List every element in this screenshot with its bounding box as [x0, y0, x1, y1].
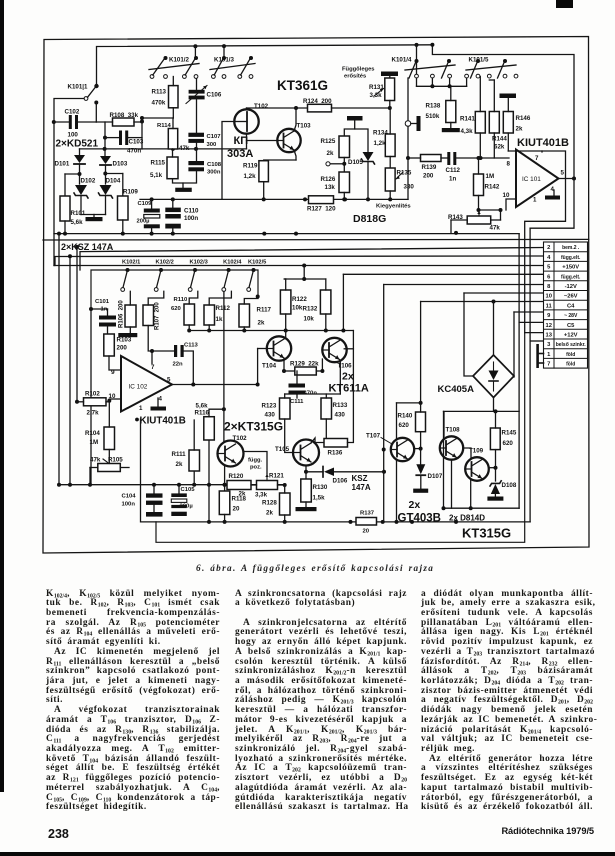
- wire D103 to R109: [105, 173, 123, 175]
- wire T105 collector: [311, 438, 324, 443]
- svg-text:R132: R132: [303, 306, 318, 313]
- wire K101/2 stem: [194, 46, 196, 58]
- wire T105 emitter: [305, 466, 307, 480]
- wire T107 top net: [396, 403, 398, 439]
- wire bridge right riser: [513, 312, 515, 377]
- svg-text:R130: R130: [313, 484, 328, 491]
- svg-text:R131: R131: [369, 84, 384, 91]
- svg-text:függ.elt.: függ.elt.: [561, 274, 581, 280]
- svg-text:10k: 10k: [304, 316, 315, 323]
- svg-text:R136: R136: [328, 450, 343, 457]
- svg-text:+12V: +12V: [564, 333, 578, 339]
- svg-text:R125: R125: [321, 138, 336, 145]
- svg-text:IC 101: IC 101: [522, 176, 541, 183]
- wire fugg.elt row wire: [55, 256, 544, 266]
- potentiometer R131: [381, 72, 398, 77]
- wire T106 emitter: [339, 361, 341, 395]
- svg-text:föld: föld: [566, 352, 575, 358]
- svg-text:R106 200: R106 200: [119, 300, 125, 328]
- svg-text:100n: 100n: [184, 215, 198, 222]
- svg-text:-12V: -12V: [565, 284, 577, 290]
- text column 1: [46, 590, 220, 814]
- svg-text:R112: R112: [216, 305, 231, 312]
- svg-text:12: 12: [545, 323, 551, 329]
- svg-text:R140: R140: [398, 413, 413, 420]
- svg-text:erősítés: erősítés: [344, 74, 366, 80]
- svg-text:C5: C5: [567, 323, 575, 329]
- wire T102 gate: [222, 122, 235, 200]
- svg-text:20: 20: [233, 506, 240, 513]
- wire bottom right rail: [444, 507, 520, 509]
- wire bem.2 row wire: [80, 248, 544, 271]
- svg-text:R122: R122: [292, 296, 307, 303]
- svg-text:D107: D107: [428, 473, 443, 480]
- wire upper frame bottom: [43, 238, 589, 241]
- svg-text:R127 120: R127 120: [307, 206, 336, 213]
- svg-text:300: 300: [207, 142, 218, 148]
- wire T106 collector: [344, 348, 353, 350]
- svg-text:2k: 2k: [327, 150, 334, 157]
- journal footer: [414, 826, 594, 836]
- svg-text:D106: D106: [333, 478, 348, 485]
- wire T103 collector: [294, 108, 296, 131]
- svg-text:R115: R115: [151, 160, 166, 167]
- svg-text:2x: 2x: [409, 499, 421, 511]
- svg-text:5: 5: [561, 170, 565, 177]
- svg-text:T105: T105: [275, 446, 290, 453]
- wire IC101 pin7 feedback: [525, 151, 566, 333]
- wire K101|1 lower contact down: [95, 103, 97, 123]
- wire R108 left down: [104, 122, 106, 138]
- svg-text:R121: R121: [269, 473, 284, 480]
- svg-text:KT315G: KT315G: [462, 526, 511, 541]
- svg-text:2,7k: 2,7k: [87, 410, 100, 417]
- svg-text:1M: 1M: [486, 173, 495, 180]
- svg-text:T107: T107: [366, 433, 381, 440]
- svg-text:5,1k: 5,1k: [150, 172, 163, 179]
- label KIUT401B lower: [135, 418, 139, 422]
- wire T109 base: [463, 448, 471, 457]
- wire T102 drain to R124: [246, 108, 248, 109]
- wire IC101 output: [559, 178, 575, 180]
- svg-text:K101|1: K101|1: [68, 84, 89, 91]
- svg-text:KT611A: KT611A: [329, 383, 369, 395]
- svg-text:belső szinkr.: belső szinkr.: [556, 342, 587, 348]
- text column 2: [235, 590, 407, 814]
- capacitor C103: [119, 131, 122, 146]
- svg-text:C103: C103: [129, 139, 144, 146]
- wire T102b collector: [223, 292, 225, 442]
- text column 3: [421, 590, 593, 814]
- svg-text:470k: 470k: [152, 100, 166, 107]
- svg-text:T103: T103: [297, 123, 312, 130]
- svg-text:7: 7: [547, 362, 550, 368]
- wire T103 emitter: [294, 150, 296, 160]
- wire bottom bus: [141, 419, 531, 522]
- svg-text:10k: 10k: [292, 305, 303, 312]
- svg-text:147A: 147A: [352, 483, 371, 492]
- wire bridge bottom rail: [444, 410, 520, 412]
- svg-text:D108: D108: [502, 482, 517, 489]
- schematic outer frame: [43, 37, 589, 554]
- wire R111 branch: [193, 471, 195, 485]
- wire C4 row wire: [421, 301, 544, 303]
- pot tap terminal: [326, 162, 330, 166]
- svg-text:R109: R109: [123, 189, 138, 196]
- svg-text:2×KT315G: 2×KT315G: [224, 420, 283, 434]
- wire R116 branch: [208, 440, 210, 485]
- svg-text:T104: T104: [262, 363, 277, 370]
- page number: [48, 827, 69, 841]
- wire ~26V riser: [464, 293, 473, 376]
- svg-text:K101/2: K101/2: [169, 57, 190, 64]
- wire K101|1 left to C102: [54, 99, 84, 266]
- svg-text:11: 11: [546, 303, 553, 309]
- svg-text:T102: T102: [254, 103, 269, 110]
- connector ground bracket: [536, 344, 539, 368]
- svg-text:R123: R123: [262, 403, 277, 410]
- svg-text:R118: R118: [232, 496, 247, 503]
- op-amp IC102 KIUT401B: [121, 356, 172, 412]
- svg-text:1,5k: 1,5k: [313, 495, 326, 502]
- svg-text:3,3k: 3,3k: [370, 92, 383, 99]
- wire output to belso szinkron: [530, 179, 574, 229]
- capacitor C112: [447, 152, 450, 165]
- svg-text:KT361G: KT361G: [277, 78, 328, 93]
- svg-text:R146: R146: [516, 115, 531, 122]
- svg-text:C113: C113: [184, 343, 198, 349]
- svg-text:C107: C107: [207, 134, 222, 140]
- ground R138: [442, 128, 460, 132]
- wire pin10 link: [506, 199, 516, 210]
- svg-text:R138: R138: [426, 103, 441, 110]
- connector table: [544, 242, 588, 368]
- svg-text:D818G: D818G: [353, 213, 386, 225]
- svg-text:4: 4: [159, 396, 163, 403]
- svg-text:7: 7: [535, 155, 539, 162]
- svg-text:Függőleges: Függőleges: [342, 67, 375, 73]
- resistor R127: [309, 196, 334, 204]
- wire T104 base from output: [257, 349, 259, 385]
- wire C5 row wire: [519, 321, 543, 323]
- bottom frame left lower: [90, 309, 92, 485]
- svg-text:K102/3: K102/3: [190, 260, 208, 266]
- svg-text:47k: 47k: [490, 225, 501, 232]
- svg-text:függ.: függ.: [248, 458, 263, 464]
- capacitor C106 variable: [189, 90, 205, 94]
- svg-text:8: 8: [507, 161, 511, 168]
- bottom frame bottom inner: [156, 333, 525, 543]
- svg-text:D104: D104: [106, 178, 121, 185]
- svg-text:620: 620: [399, 422, 410, 429]
- svg-text:K102/1: K102/1: [122, 260, 140, 266]
- svg-text:K102/5: K102/5: [248, 260, 266, 266]
- svg-text:C106: C106: [207, 92, 222, 99]
- wire T102 source: [246, 134, 248, 149]
- svg-text:C111: C111: [290, 399, 304, 405]
- svg-text:C112: C112: [446, 167, 461, 174]
- svg-text:200: 200: [423, 173, 434, 180]
- svg-text:C108: C108: [207, 162, 222, 168]
- svg-text:2x: 2x: [342, 371, 354, 383]
- svg-text:2x D814D: 2x D814D: [449, 514, 485, 523]
- wire base bias rail: [189, 330, 353, 332]
- input terminal with cap: [407, 78, 409, 121]
- svg-text:R141: R141: [460, 116, 475, 123]
- svg-text:R139: R139: [422, 164, 437, 171]
- wire C4 riser: [420, 302, 422, 403]
- svg-text:1k: 1k: [216, 316, 223, 323]
- wire IC102 pin7: [151, 351, 153, 364]
- ground R130: [296, 507, 317, 511]
- wire +150V branch: [303, 266, 305, 280]
- svg-text:100n: 100n: [122, 502, 136, 508]
- svg-text:IC 102: IC 102: [129, 384, 148, 391]
- wire +12V row wire: [525, 332, 544, 334]
- terminal bar: [347, 116, 363, 121]
- svg-text:~26V: ~26V: [564, 294, 578, 300]
- ground D108: [487, 497, 503, 501]
- svg-text:303А: 303А: [227, 148, 253, 160]
- wire T102 base to R121 wiper: [243, 452, 267, 475]
- wire T108 emitter down: [451, 460, 453, 508]
- svg-text:R111: R111: [172, 451, 187, 458]
- wire T107 right node: [414, 448, 420, 450]
- svg-text:2k: 2k: [516, 126, 523, 133]
- svg-text:KIUT401B: KIUT401B: [140, 416, 186, 427]
- wire C5 riser: [518, 234, 520, 509]
- wire ~26V row wire: [464, 292, 544, 294]
- svg-text:R145: R145: [502, 430, 517, 437]
- scan edge bars: [0, 0, 4, 792]
- wire K101/3 stem: [223, 46, 225, 58]
- ground IC102 pin4: [157, 398, 159, 407]
- svg-text:5,6k: 5,6k: [196, 403, 209, 410]
- svg-text:2k: 2k: [266, 510, 273, 517]
- svg-text:2×KD521: 2×KD521: [56, 139, 99, 150]
- svg-text:C4: C4: [567, 303, 575, 309]
- svg-text:2: 2: [547, 245, 550, 251]
- svg-text:R101: R101: [71, 210, 86, 217]
- svg-text:R110: R110: [174, 297, 188, 303]
- wire D102 D104 common: [81, 214, 106, 216]
- ground R106: [118, 333, 137, 337]
- svg-text:poz.: poz.: [250, 465, 262, 471]
- wire fugg.elt-2 row wire: [343, 273, 543, 275]
- svg-text:C101: C101: [95, 299, 110, 305]
- svg-text:~ 28V: ~ 28V: [564, 313, 578, 319]
- wire R122 R132 rail: [284, 278, 326, 280]
- wire T104 emitter: [283, 359, 285, 372]
- svg-text:R119: R119: [243, 163, 258, 170]
- wire C103 node down: [104, 138, 106, 149]
- capacitor C110: [172, 199, 174, 207]
- wire -12V drop: [383, 285, 385, 522]
- svg-text:5: 5: [167, 377, 171, 384]
- svg-text:5,6k: 5,6k: [71, 219, 84, 226]
- wire bridge top: [493, 302, 495, 356]
- svg-text:C110: C110: [184, 208, 199, 215]
- wire T109 right node: [489, 467, 496, 469]
- svg-text:C109: C109: [138, 201, 153, 207]
- svg-text:10: 10: [545, 294, 551, 300]
- wire node A rail: [80, 148, 247, 150]
- svg-text:R117: R117: [257, 307, 272, 314]
- svg-text:620: 620: [171, 306, 182, 312]
- wire horizontal mid rail: [59, 484, 285, 486]
- wire belso szinkr riser: [529, 228, 531, 522]
- wire belso szinkr row wire: [530, 340, 543, 342]
- resistor R101: [65, 173, 80, 175]
- svg-text:T108: T108: [446, 427, 461, 434]
- svg-text:100: 100: [68, 132, 79, 139]
- svg-text:R102: R102: [85, 391, 100, 398]
- svg-text:R103: R103: [117, 337, 132, 344]
- svg-text:KC405A: KC405A: [438, 384, 475, 395]
- svg-text:R107 200: R107 200: [155, 302, 161, 330]
- svg-text:200µ: 200µ: [137, 219, 150, 225]
- svg-text:9: 9: [111, 369, 115, 376]
- svg-text:K101/4: K101/4: [392, 57, 413, 64]
- wire T102b emitter: [224, 467, 226, 492]
- svg-text:K102/4: K102/4: [223, 260, 242, 266]
- svg-text:K102/2: K102/2: [156, 260, 174, 266]
- svg-text:1n: 1n: [449, 176, 456, 183]
- wire top rail: [97, 45, 433, 86]
- ground D102 D104: [86, 217, 103, 221]
- wire ground rail: [54, 233, 519, 235]
- svg-text:2×KSZ 147A: 2×KSZ 147A: [61, 242, 114, 252]
- svg-text:330: 330: [404, 184, 415, 191]
- svg-text:R128: R128: [262, 500, 277, 507]
- svg-text:föld: föld: [566, 362, 575, 368]
- wire K101/4 contacts bus: [416, 78, 418, 86]
- wire R108 right down: [141, 118, 143, 149]
- svg-text:+150V: +150V: [562, 265, 579, 271]
- wire K101/4 stem: [416, 45, 418, 77]
- svg-text:47k: 47k: [179, 145, 190, 152]
- svg-text:620: 620: [503, 440, 514, 447]
- wire cap rail: [140, 198, 222, 200]
- wire T106 base: [321, 359, 323, 371]
- svg-text:1,2k: 1,2k: [374, 140, 387, 147]
- svg-text:2k: 2k: [258, 320, 265, 327]
- svg-text:R137: R137: [360, 511, 375, 517]
- bottom section frame: [91, 270, 258, 309]
- svg-text:62k: 62k: [494, 144, 505, 151]
- svg-text:KSZ: KSZ: [352, 474, 368, 483]
- svg-text:10: 10: [503, 192, 510, 199]
- svg-text:R126: R126: [321, 176, 336, 183]
- svg-text:1,2k: 1,2k: [244, 173, 257, 180]
- svg-text:4,3k: 4,3k: [461, 128, 474, 135]
- svg-text:13: 13: [545, 333, 552, 339]
- ground D107: [413, 489, 428, 493]
- svg-text:C104: C104: [122, 494, 137, 500]
- wire left bus 1: [58, 234, 60, 485]
- wire R116 to bus: [208, 485, 210, 522]
- svg-text:200: 200: [117, 345, 128, 352]
- svg-text:430: 430: [265, 412, 276, 419]
- svg-text:bem.2 .: bem.2 .: [562, 245, 580, 251]
- svg-text:R142: R142: [485, 184, 500, 191]
- ground R115 C108: [175, 188, 192, 192]
- wire +150V row wire: [54, 265, 544, 267]
- svg-text:GT403B: GT403B: [398, 513, 441, 525]
- svg-text:430: 430: [335, 412, 346, 419]
- svg-text:1: 1: [139, 405, 143, 412]
- svg-text:R116: R116: [195, 410, 210, 417]
- svg-text:R104: R104: [85, 430, 100, 437]
- svg-text:D102: D102: [81, 178, 96, 185]
- ground IC101 pin4: [553, 190, 555, 195]
- svg-text:D105: D105: [348, 159, 363, 166]
- svg-text:510k: 510k: [426, 113, 440, 120]
- wire top rail right segment: [432, 45, 574, 179]
- wire -12V row wire: [384, 284, 544, 286]
- svg-text:3,3k: 3,3k: [255, 492, 268, 499]
- svg-text:C102: C102: [65, 109, 80, 116]
- svg-text:C105: C105: [181, 487, 196, 493]
- svg-text:Kiegyenlítés: Kiegyenlítés: [376, 204, 411, 210]
- svg-text:R113: R113: [152, 89, 167, 96]
- caption figure 6: [196, 563, 436, 573]
- wire IC102 output: [172, 384, 258, 386]
- wire row6 vertical: [342, 274, 344, 330]
- svg-text:7: 7: [151, 364, 155, 371]
- svg-text:13k: 13k: [325, 184, 336, 191]
- wire Kiegyenlítés rail: [222, 198, 408, 200]
- wire T104 base: [258, 348, 267, 350]
- svg-text:R133: R133: [333, 402, 348, 409]
- svg-text:2k: 2k: [176, 461, 183, 468]
- svg-text:R120: R120: [229, 473, 244, 480]
- svg-text:függ.elt.: függ.elt.: [561, 255, 581, 261]
- svg-text:47k: 47k: [90, 457, 101, 464]
- wire bridge bottom: [493, 398, 495, 412]
- wire ~28V row wire: [514, 311, 544, 313]
- wire left bus 3: [76, 247, 78, 402]
- svg-text:KIUT401B: KIUT401B: [517, 137, 569, 149]
- wire T103 base: [247, 140, 279, 142]
- wire left bus 2: [69, 256, 71, 484]
- svg-text:300n: 300n: [207, 170, 221, 176]
- svg-text:1: 1: [533, 197, 537, 204]
- wire T109 emitter down: [470, 481, 472, 509]
- svg-text:1M: 1M: [90, 439, 99, 446]
- wire T108 base top: [443, 413, 445, 437]
- svg-text:22n: 22n: [173, 362, 184, 368]
- svg-text:D103: D103: [113, 161, 128, 168]
- svg-text:D101: D101: [55, 161, 70, 168]
- wire T108 box left: [443, 411, 445, 508]
- svg-text:20: 20: [363, 529, 370, 535]
